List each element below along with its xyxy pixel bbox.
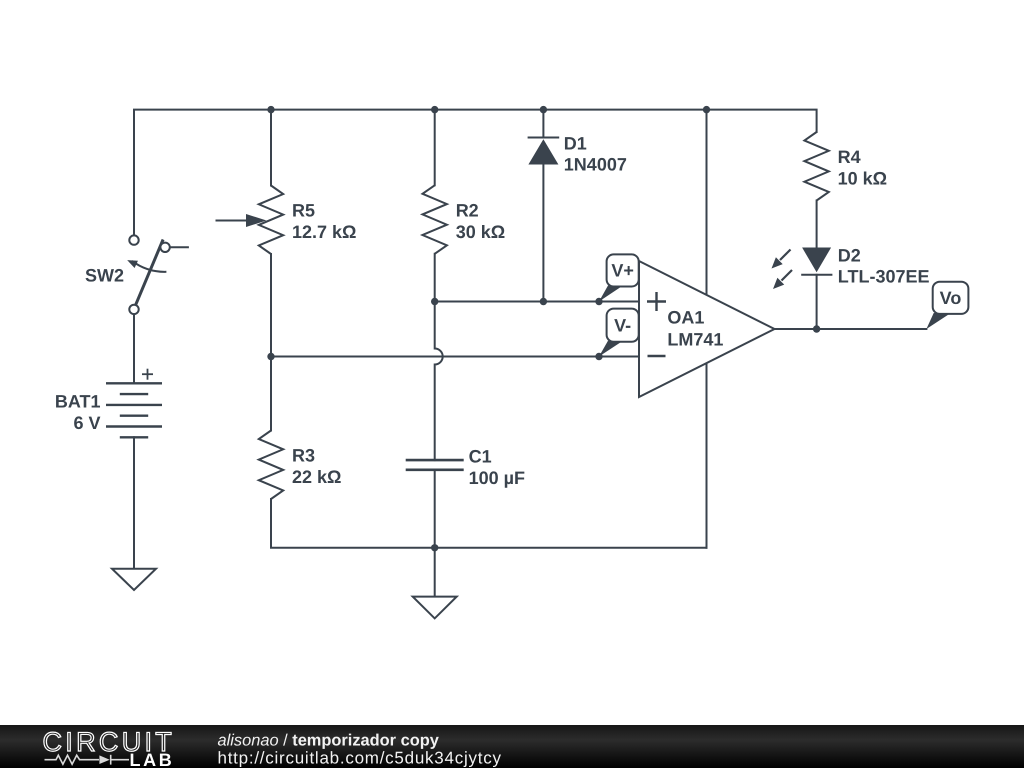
battery plus sign: [142, 369, 153, 380]
resistor R2: [423, 185, 447, 254]
battery BAT1: [106, 383, 162, 437]
wire R2 branch vertical: [434, 110, 436, 186]
svg-text:OA1: OA1: [667, 308, 704, 328]
node dot V+ wire / D1: [540, 298, 547, 305]
svg-text:1N4007: 1N4007: [564, 155, 627, 175]
node dot bottom rail / C1: [431, 544, 438, 551]
node dot V+ flag attach: [595, 298, 602, 305]
svg-text:12.7 kΩ: 12.7 kΩ: [292, 222, 356, 242]
diode D1: [528, 138, 560, 165]
wire R5 branch vertical: [270, 110, 272, 186]
ground under C1: [413, 597, 457, 619]
svg-text:R4: R4: [838, 147, 861, 167]
wire C1 bottom lead: [434, 470, 436, 548]
flag V+: [599, 254, 639, 301]
LED emission arrows of D2: [772, 250, 793, 290]
svg-text:Vo: Vo: [940, 288, 962, 308]
wire top rail: [134, 110, 817, 236]
node dot V+ wire / R2: [431, 298, 438, 305]
resistor R5 (potentiometer): [259, 186, 283, 255]
CircuitLab logo schematic icon (resistor + diode): [45, 755, 130, 765]
wire ground stub below bottom rail: [434, 548, 436, 597]
wire R2 bottom to V+ node: [434, 254, 436, 302]
svg-text:R2: R2: [456, 200, 479, 220]
capacitor C1: [406, 460, 464, 470]
node dot top rail / feedback: [703, 106, 710, 113]
svg-text:V-: V-: [614, 316, 631, 336]
wire feedback vertical: [706, 110, 708, 548]
ground under battery: [112, 569, 156, 590]
wire V- input: [271, 356, 639, 358]
wire D2 to output: [816, 275, 818, 329]
svg-text:6 V: 6 V: [73, 413, 100, 433]
svg-text:LAB: LAB: [130, 750, 175, 768]
resistor R3: [259, 431, 283, 500]
node dot top rail / R2: [431, 106, 438, 113]
svg-text:SW2: SW2: [85, 266, 124, 286]
node dot V- flag attach: [595, 353, 602, 360]
wire C1 top lead with hop over V- wire: [435, 302, 443, 461]
svg-text:http://circuitlab.com/c5duk34c: http://circuitlab.com/c5duk34cjytcy: [218, 749, 502, 768]
wire D1 top lead: [542, 110, 544, 138]
svg-text:100 µF: 100 µF: [469, 468, 525, 488]
wire battery to ground: [133, 437, 135, 568]
svg-text:alisonao / temporizador copy: alisonao / temporizador copy: [218, 732, 440, 750]
potentiometer arrow of R5: [216, 214, 267, 227]
wire switch to battery: [133, 314, 135, 384]
svg-text:D2: D2: [838, 246, 861, 266]
svg-text:D1: D1: [564, 134, 587, 154]
switch SW2: [126, 235, 189, 314]
svg-text:10 kΩ: 10 kΩ: [838, 169, 887, 189]
node dot V- wire / R5 line: [267, 353, 274, 360]
node dot top rail / R5: [267, 106, 274, 113]
svg-text:R5: R5: [292, 201, 315, 221]
wire op-amp output: [775, 328, 927, 330]
svg-text:LTL-307EE: LTL-307EE: [838, 267, 930, 287]
wire V+ input: [435, 301, 639, 303]
wire R5 to R3 vertical: [270, 254, 272, 431]
svg-text:LM741: LM741: [667, 330, 723, 350]
svg-text:R3: R3: [292, 446, 315, 466]
resistor R4: [804, 132, 828, 201]
svg-text:22 kΩ: 22 kΩ: [292, 467, 341, 487]
op-amp OA1: [639, 261, 775, 397]
flag V-: [599, 309, 639, 357]
svg-text:30 kΩ: 30 kΩ: [456, 222, 505, 242]
svg-text:C1: C1: [469, 447, 492, 467]
svg-text:V+: V+: [611, 261, 634, 281]
flag Vo: [926, 282, 968, 329]
wire D1 bottom lead: [542, 165, 544, 302]
svg-text:BAT1: BAT1: [55, 392, 101, 412]
wire R4 bottom to D2: [816, 201, 818, 248]
node dot top rail / D1: [540, 106, 547, 113]
wire R3 bottom to bottom rail: [271, 499, 707, 548]
node dot output / D2: [813, 325, 820, 332]
diode D2 (LED): [801, 248, 832, 275]
